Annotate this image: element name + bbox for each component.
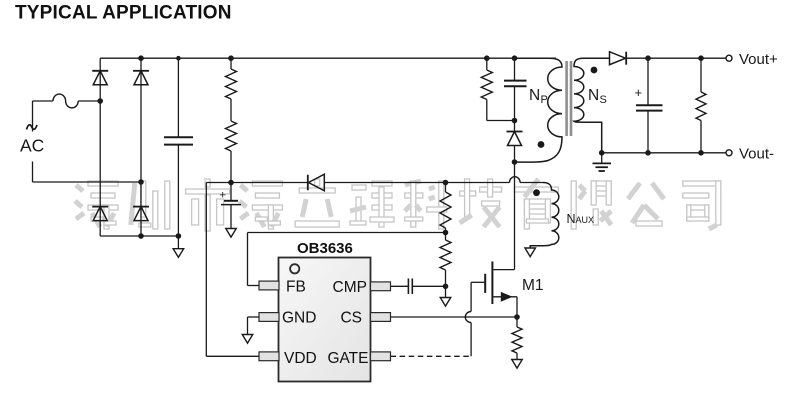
wire top rail: [100, 57, 556, 59]
node snubber R top: [484, 55, 490, 61]
bridge diode D2: [133, 71, 149, 85]
label M1: [522, 277, 544, 294]
pin label FB: [286, 279, 306, 296]
wire AC top: [33, 100, 54, 102]
svg-text:FB: FB: [286, 279, 306, 296]
svg-text:OB3636: OB3636: [297, 240, 353, 257]
wire CMP 2: [412, 285, 445, 287]
svg-text:Vout-: Vout-: [739, 146, 774, 163]
resistor sense: [512, 317, 522, 360]
wire AC top right: [78, 100, 100, 102]
pin GND stub: [259, 313, 279, 322]
capacitor bulk input: [164, 58, 193, 236]
svg-text:AUX: AUX: [576, 215, 595, 225]
terminal Vout-: [726, 146, 774, 163]
wire bridge bottom rail: [100, 235, 178, 237]
label NP: [529, 87, 548, 106]
wire GND pin: [248, 317, 260, 335]
terminal Vout+: [726, 51, 778, 68]
bridge diode D3: [92, 207, 108, 221]
transformer core: [565, 61, 572, 136]
node VDD junction: [228, 180, 234, 186]
node snubber cap top: [512, 55, 518, 61]
label NS: [588, 87, 607, 106]
resistor snubber: [481, 58, 514, 120]
ground divider: [440, 286, 451, 306]
svg-text:+: +: [220, 190, 226, 202]
svg-text:M1: M1: [522, 277, 544, 294]
ground GND pin: [242, 335, 253, 344]
resistor divider lower: [440, 233, 451, 287]
pin GATE stub: [371, 352, 391, 361]
watermark: [75, 179, 721, 231]
svg-text:GATE: GATE: [327, 350, 368, 367]
node load bottom: [698, 150, 704, 156]
wire gate hop: [465, 312, 471, 323]
capacitor snubber: [504, 58, 527, 120]
pin label CMP: [333, 279, 367, 296]
pin CS stub: [371, 313, 391, 322]
winding NP: [515, 58, 563, 162]
op-amp U1 OB3636 body: [279, 240, 371, 382]
pin label VDD: [284, 350, 317, 367]
node NS phase dot: [591, 67, 598, 74]
svg-text:S: S: [600, 94, 607, 106]
capacitor VDD electrolytic: [220, 183, 242, 229]
wire aux rail 3: [520, 182, 543, 184]
label NAUX: [567, 212, 595, 226]
svg-text:P: P: [541, 94, 548, 106]
ground sense: [512, 360, 523, 369]
title text: [15, 3, 232, 24]
node NAUX phase dot: [533, 189, 540, 196]
node out cap top: [645, 55, 651, 61]
node leg2 top: [138, 55, 144, 61]
wire AC bottom: [33, 181, 142, 183]
capacitor CMP: [408, 279, 412, 295]
wire out top: [627, 57, 726, 59]
svg-text:CMP: CMP: [333, 279, 367, 296]
node NP phase dot: [538, 141, 545, 148]
svg-text:AC: AC: [20, 136, 44, 156]
diode snubber: [507, 121, 523, 163]
diode output: [610, 52, 627, 65]
node leg2 bottom: [138, 233, 144, 239]
resistor divider upper: [440, 183, 451, 233]
wire FB: [248, 233, 446, 286]
pin label GATE: [327, 350, 368, 367]
svg-text:N: N: [588, 87, 599, 104]
wire aux rail 2: [446, 182, 510, 184]
wire gate vertical 2: [470, 323, 472, 357]
svg-text:+: +: [635, 85, 643, 100]
pin FB stub: [259, 281, 279, 290]
node NS bottom: [599, 150, 605, 156]
svg-text:N: N: [567, 212, 576, 226]
pin VDD stub: [259, 352, 279, 361]
svg-text:N: N: [529, 87, 540, 104]
bridge diode D1: [92, 71, 108, 85]
wire bridge leg1: [99, 58, 101, 236]
wire bridge leg2: [140, 58, 142, 236]
ground VDD cap: [226, 229, 237, 238]
AC source: [20, 101, 44, 182]
pin label GND: [282, 310, 316, 327]
node NP bottom junction: [512, 159, 518, 165]
wire out bottom: [602, 152, 726, 154]
svg-text:Vout+: Vout+: [739, 51, 778, 68]
pin CMP stub: [371, 282, 391, 291]
fuse: [53, 94, 78, 108]
svg-text:GND: GND: [282, 310, 316, 327]
winding NS: [574, 58, 609, 153]
pin label CS: [340, 310, 362, 327]
transistor M1: [471, 262, 517, 318]
node cap bottom: [176, 233, 182, 239]
resistor startup upper: [226, 58, 237, 121]
winding NAUX: [530, 183, 559, 249]
node startup top: [228, 55, 234, 61]
ground bridge: [173, 236, 184, 257]
node source junction: [514, 314, 520, 320]
wire gate vertical: [470, 282, 472, 311]
resistor startup lower: [226, 121, 237, 183]
wire CMP: [390, 285, 408, 287]
wire CS: [391, 316, 518, 318]
node load top: [698, 55, 704, 61]
resistor load: [696, 58, 706, 153]
node AC-bottom junction: [138, 179, 144, 185]
ground earth NS: [593, 153, 612, 171]
svg-text:VDD: VDD: [284, 350, 317, 367]
node AC-top junction: [97, 98, 103, 104]
wire aux rail hop: [510, 177, 521, 183]
wire aux rail: [324, 182, 445, 184]
wire GATE dashed: [391, 355, 472, 357]
node cap top: [176, 56, 181, 61]
svg-text:CS: CS: [340, 310, 362, 327]
wire VDD drop: [206, 183, 259, 357]
node out cap bottom: [645, 150, 651, 156]
svg-text:TYPICAL APPLICATION: TYPICAL APPLICATION: [15, 3, 232, 24]
bridge diode D4: [133, 207, 149, 221]
node divider top: [443, 180, 449, 186]
ground NAUX: [525, 248, 536, 257]
node snubber joint: [512, 118, 518, 124]
capacitor output electrolytic: [635, 58, 663, 153]
node divider bottom: [443, 284, 449, 290]
wire VDD rail: [206, 182, 307, 184]
wire drain: [514, 162, 516, 270]
diode VDD charge: [308, 174, 325, 191]
node FB tap: [443, 230, 449, 236]
